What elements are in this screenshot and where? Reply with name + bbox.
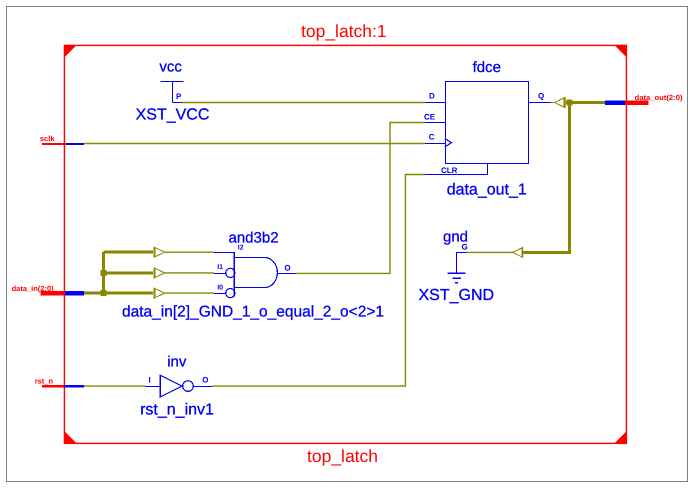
svg-text:data_out_1: data_out_1 <box>447 182 527 199</box>
pin stub CLR <box>425 163 488 175</box>
bus trunk vertical <box>102 252 105 293</box>
pin I0 <box>217 285 223 292</box>
pin stub I1 <box>214 272 226 274</box>
svg-text:D: D <box>429 92 435 101</box>
pin stub O of inv <box>193 386 212 388</box>
svg-text:top_latch:1: top_latch:1 <box>301 21 387 41</box>
pin G <box>462 242 468 251</box>
label vcc <box>159 59 182 76</box>
wire gnd pin to tap <box>466 251 512 253</box>
bus wire data_in to trunk <box>84 292 103 295</box>
junction dot at Q bus <box>567 100 573 106</box>
svg-text:G: G <box>462 242 468 251</box>
bus wire gnd tap horizontal <box>523 251 571 254</box>
pin stub I0 <box>214 293 226 295</box>
flip-flop fdce U data_out_1 <box>445 82 529 164</box>
bus tap arrow I2 <box>154 247 165 258</box>
junction dot trunk mid <box>100 270 106 276</box>
ground symbol gnd U XST_GND <box>448 252 467 282</box>
pin P of XST_VCC <box>176 92 182 101</box>
label XST_VCC <box>136 106 210 123</box>
schematic boundary top_latch <box>64 45 627 444</box>
power symbol vcc U XST_VCC <box>161 82 184 103</box>
wire vcc to D <box>182 102 425 104</box>
inverter inv U rst_n_inv1 <box>160 375 193 397</box>
label rst_n_inv1 <box>140 402 214 419</box>
input port data_in(2:0) <box>12 284 84 296</box>
label gnd <box>443 229 468 246</box>
svg-text:rst_n_inv1: rst_n_inv1 <box>140 402 214 419</box>
wire tap to I2 <box>165 251 214 253</box>
svg-text:O: O <box>202 376 208 385</box>
wire sclk to C <box>84 143 425 145</box>
wire tap to I0 <box>165 292 214 294</box>
pin D <box>429 92 435 101</box>
label fdce <box>473 59 501 76</box>
pin Q <box>538 92 544 101</box>
pin O of inv <box>202 376 208 385</box>
bus branch to tap I0 <box>103 292 153 295</box>
junction dot trunk bottom <box>100 290 106 296</box>
svg-text:XST_VCC: XST_VCC <box>136 106 210 123</box>
svg-text:P: P <box>176 92 182 101</box>
svg-text:C: C <box>429 133 435 142</box>
label data_out_1 <box>447 182 527 199</box>
svg-text:CLR: CLR <box>441 166 458 175</box>
pin CLR <box>441 166 458 175</box>
bus tap arrow I1 <box>154 267 165 278</box>
wire tap to I1 <box>165 272 214 274</box>
svg-text:I2: I2 <box>238 245 244 252</box>
pin stub I of inv <box>145 386 160 388</box>
svg-text:I: I <box>149 376 151 385</box>
title top_latch <box>307 446 378 466</box>
pin I of inv <box>149 376 151 385</box>
pin stub O of and3b2 <box>277 272 296 274</box>
svg-text:I1: I1 <box>217 264 223 271</box>
svg-text:Q: Q <box>538 92 544 101</box>
label data_in[2]_GND_1_o_equal_2_o<2>1 <box>122 303 384 320</box>
wire inv output to CLR <box>213 175 426 387</box>
wire and output to CE <box>296 123 425 274</box>
svg-text:fdce: fdce <box>473 59 501 76</box>
svg-text:sclk: sclk <box>40 134 55 143</box>
pin CE <box>424 113 436 122</box>
svg-text:inv: inv <box>167 354 187 371</box>
pin stub C <box>425 143 445 145</box>
bus branch to tap I2 <box>103 251 153 254</box>
input port rst_n <box>35 377 84 388</box>
bus tap arrow at gnd <box>513 247 523 258</box>
svg-text:CE: CE <box>424 113 436 122</box>
label XST_GND <box>419 287 495 304</box>
output port data_out(2:0) <box>605 93 683 105</box>
bus tap arrow I0 <box>154 288 165 299</box>
label and3b2 <box>229 230 279 247</box>
and gate and3b2 U data_in[2]_GND_1_o_equal_2_o<2>1 <box>226 252 278 298</box>
bus wire Q to data_out port <box>566 101 605 104</box>
svg-text:top_latch: top_latch <box>307 446 378 466</box>
svg-text:O: O <box>284 264 290 273</box>
pin O of and3b2 <box>284 264 290 273</box>
title top_latch:1 <box>301 21 387 41</box>
pin stub Q <box>528 102 555 104</box>
svg-text:I0: I0 <box>217 285 223 292</box>
label inv <box>167 354 187 371</box>
svg-text:rst_n: rst_n <box>35 377 54 386</box>
pin I2 <box>238 245 244 252</box>
bus branch to tap I1 <box>103 271 153 274</box>
pin stub I2 <box>214 252 234 254</box>
input port sclk <box>40 134 84 145</box>
bus wire down to gnd tap <box>568 103 571 253</box>
wire rst_n to inv <box>84 385 145 387</box>
svg-text:data_in[2]_GND_1_o_equal_2_o<2: data_in[2]_GND_1_o_equal_2_o<2>1 <box>122 303 384 320</box>
pin I1 <box>217 264 223 271</box>
svg-text:vcc: vcc <box>159 59 182 76</box>
pin stub D <box>425 102 445 104</box>
pin C <box>429 133 435 142</box>
svg-text:and3b2: and3b2 <box>229 230 279 247</box>
bus tap arrow at Q <box>555 97 566 108</box>
svg-text:XST_GND: XST_GND <box>419 287 495 304</box>
pin stub CE <box>425 122 445 124</box>
